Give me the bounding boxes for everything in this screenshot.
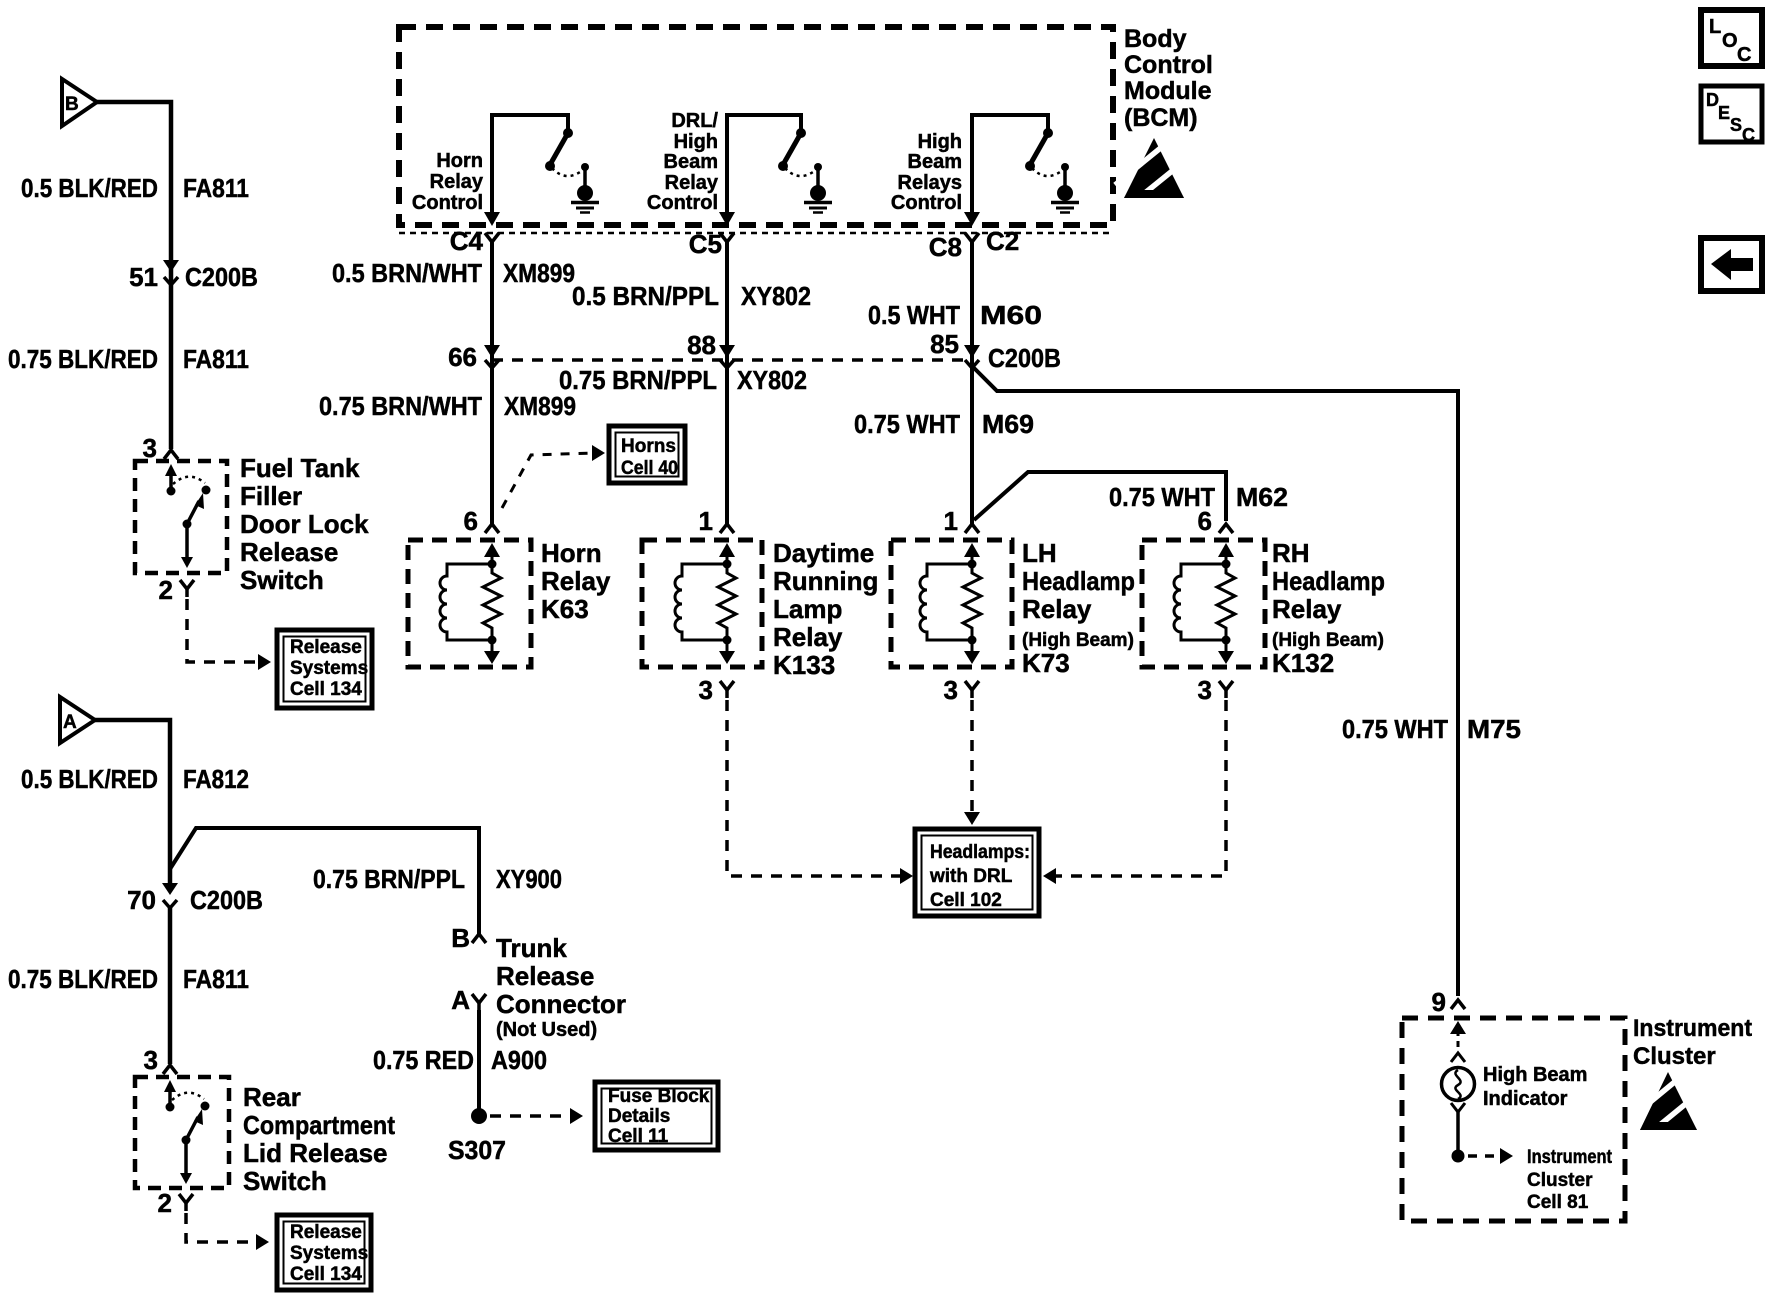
- svg-text:B: B: [65, 94, 79, 115]
- svg-text:Switch: Switch: [240, 565, 324, 595]
- relay coil of K132: [1174, 543, 1235, 664]
- svg-text:Fuse Block: Fuse Block: [608, 1086, 710, 1107]
- svg-text:(BCM): (BCM): [1124, 104, 1198, 132]
- fuel tank switch name label: [240, 453, 369, 595]
- svg-text:A: A: [451, 985, 470, 1015]
- svg-text:Running: Running: [773, 566, 878, 596]
- daytime running lamp relay K133 dashed box: [642, 540, 762, 667]
- headlamps with DRL cell 102 reference box: [915, 829, 1039, 916]
- svg-text:High: High: [674, 131, 718, 153]
- svg-text:70: 70: [127, 885, 156, 915]
- svg-text:C8: C8: [929, 232, 962, 262]
- svg-text:XM899: XM899: [504, 391, 576, 421]
- dashed wire to release systems cell 134: [187, 599, 271, 670]
- BCM pin C4: [450, 226, 499, 256]
- pin 3 of K132: [1198, 675, 1233, 705]
- svg-text:66: 66: [448, 342, 477, 372]
- release systems cell 134 reference box (lower): [277, 1215, 371, 1290]
- svg-text:0.5 BLK/RED: 0.5 BLK/RED: [21, 173, 158, 203]
- horn relay driver in BCM: [484, 115, 599, 226]
- wire label 0.5 BLK/RED FA811: [21, 173, 249, 203]
- body control module BCM dashed box: [399, 27, 1113, 225]
- svg-text:DRL/: DRL/: [671, 110, 718, 132]
- svg-text:0.75 BRN/PPL: 0.75 BRN/PPL: [559, 365, 717, 395]
- svg-text:2: 2: [158, 1188, 172, 1218]
- svg-text:Systems: Systems: [290, 1243, 368, 1264]
- LOC button box: [1701, 10, 1762, 66]
- splice S307: [448, 1108, 506, 1165]
- BCM connector face dotted line: [399, 232, 1113, 235]
- svg-text:LH: LH: [1022, 538, 1057, 568]
- svg-text:85: 85: [930, 329, 959, 359]
- svg-text:K133: K133: [773, 650, 835, 680]
- svg-text:S307: S307: [448, 1135, 506, 1165]
- fuse block details cell 11 reference box: [595, 1082, 718, 1150]
- svg-text:C4: C4: [450, 226, 484, 256]
- svg-text:FA811: FA811: [183, 344, 249, 374]
- pin A of trunk release connector: [451, 985, 486, 1015]
- ESD sensitivity symbol (BCM): [1115, 138, 1187, 201]
- C200B pin 88: [687, 330, 735, 368]
- svg-text:C5: C5: [689, 229, 722, 259]
- svg-text:Horn: Horn: [541, 538, 602, 568]
- svg-text:FA811: FA811: [183, 173, 249, 203]
- svg-text:K63: K63: [541, 594, 589, 624]
- svg-text:Control: Control: [891, 192, 962, 214]
- svg-text:XY802: XY802: [737, 365, 807, 395]
- pin 6 of horn relay: [464, 506, 499, 536]
- svg-text:0.75 WHT: 0.75 WHT: [1342, 714, 1448, 744]
- svg-text:Daytime: Daytime: [773, 538, 874, 568]
- svg-text:Release: Release: [290, 637, 362, 658]
- svg-text:C200B: C200B: [988, 343, 1061, 373]
- svg-text:9: 9: [1432, 987, 1446, 1017]
- svg-text:0.5 BRN/PPL: 0.5 BRN/PPL: [572, 281, 719, 311]
- pin 2 of fuel tank switch: [159, 575, 194, 605]
- svg-text:0.75 BLK/RED: 0.75 BLK/RED: [8, 964, 158, 994]
- in-line connector C200B pin 51: [129, 260, 258, 292]
- svg-text:K73: K73: [1022, 648, 1070, 678]
- svg-text:Cell 102: Cell 102: [930, 890, 1002, 911]
- svg-text:XY900: XY900: [496, 864, 562, 894]
- svg-text:A: A: [63, 712, 77, 733]
- pin 3 of rear compartment switch: [144, 1045, 177, 1075]
- svg-text:C200B: C200B: [190, 885, 263, 915]
- svg-text:XY802: XY802: [741, 281, 811, 311]
- LH headlamp relay name label: [1022, 538, 1135, 678]
- C200B pin 66: [448, 342, 500, 372]
- fuel tank filler door lock release switch: [135, 461, 227, 573]
- wire label 0.5 BLK/RED FA812: [21, 764, 249, 794]
- instrument cluster cell 81 reference label: [1527, 1147, 1613, 1213]
- svg-text:0.75 BRN/WHT: 0.75 BRN/WHT: [319, 391, 482, 421]
- in-line connector C200B pin 70: [127, 883, 263, 915]
- BCM name label: [1124, 25, 1213, 132]
- svg-text:High: High: [918, 131, 962, 153]
- svg-text:M69: M69: [982, 409, 1034, 439]
- dashed wire to release systems cell 134 (lower): [186, 1213, 269, 1250]
- svg-text:with DRL: with DRL: [929, 866, 1013, 887]
- svg-text:Trunk: Trunk: [496, 933, 567, 963]
- svg-text:0.5 BLK/RED: 0.5 BLK/RED: [21, 764, 158, 794]
- wire label 0.75 BLK/RED FA811 (lower): [8, 964, 249, 994]
- svg-text:Cluster: Cluster: [1527, 1170, 1593, 1191]
- svg-text:Cell 81: Cell 81: [1527, 1192, 1589, 1213]
- svg-text:Horns: Horns: [621, 436, 676, 457]
- connector C200B dashed pass-through line: [492, 358, 972, 362]
- instrument cluster name label: [1633, 1015, 1752, 1070]
- horns cell 40 reference box: [609, 426, 685, 483]
- wire label 0.75 WHT M62: [1109, 482, 1288, 512]
- high beam indicator lamp: [1442, 1064, 1588, 1110]
- svg-text:E: E: [1718, 103, 1730, 123]
- svg-text:A900: A900: [491, 1045, 547, 1075]
- svg-text:S: S: [1730, 115, 1742, 135]
- svg-text:Rear: Rear: [243, 1082, 301, 1112]
- svg-text:0.75 BRN/PPL: 0.75 BRN/PPL: [313, 864, 465, 894]
- svg-text:Relay: Relay: [1272, 594, 1342, 624]
- horn relay control label: [412, 150, 484, 214]
- wire M75 branch to instrument cluster: [972, 366, 1458, 996]
- svg-text:1: 1: [944, 506, 958, 536]
- svg-text:K132: K132: [1272, 648, 1334, 678]
- svg-text:Cell 134: Cell 134: [290, 1264, 362, 1285]
- dashed wire to fuse block details: [490, 1108, 583, 1124]
- svg-text:2: 2: [159, 575, 173, 605]
- wire 0.75 RED A900: [477, 1010, 481, 1116]
- pin 3 of K133: [699, 675, 734, 705]
- trunk release connector label: [496, 933, 626, 1041]
- wire B: 0.5 BLK/RED FA811: [96, 102, 171, 449]
- pin 3 of K73: [944, 675, 979, 705]
- dashed wire from K73 pin 3 to headlamps box: [964, 700, 980, 825]
- svg-text:0.75 BLK/RED: 0.75 BLK/RED: [8, 344, 158, 374]
- svg-text:Release: Release: [496, 961, 594, 991]
- svg-text:Module: Module: [1124, 77, 1212, 105]
- pin B of trunk release connector: [451, 923, 486, 953]
- RH headlamp relay name label: [1272, 538, 1385, 678]
- svg-text:C: C: [1737, 44, 1751, 66]
- svg-text:Headlamps:: Headlamps:: [930, 842, 1030, 863]
- connector triangle B: [62, 79, 97, 126]
- svg-text:B: B: [451, 923, 470, 953]
- DRL / high beam relay control label: [647, 110, 719, 214]
- svg-text:RH: RH: [1272, 538, 1310, 568]
- relay coil of K63: [440, 543, 501, 664]
- DESC button box: [1701, 86, 1762, 145]
- wire label 0.75 WHT M75: [1342, 714, 1521, 744]
- pin 6 of RH headlamp relay: [1198, 506, 1233, 536]
- wire from indicator to cluster splice: [1451, 1103, 1465, 1163]
- rear compartment switch name label: [243, 1082, 395, 1196]
- svg-text:Headlamp: Headlamp: [1022, 566, 1135, 596]
- wire label 0.5 BRN/WHT XM899: [332, 258, 575, 288]
- BCM pin C8 / connector C2: [929, 226, 1020, 262]
- svg-text:Beam: Beam: [664, 151, 718, 173]
- wire label 0.75 BRN/PPL XY900: [313, 864, 562, 894]
- svg-text:Instrument: Instrument: [1527, 1147, 1613, 1168]
- C200B pin 85: [930, 329, 1061, 373]
- pin 2 of rear compartment switch: [158, 1188, 193, 1218]
- svg-text:Beam: Beam: [908, 151, 962, 173]
- svg-text:L: L: [1709, 16, 1721, 38]
- svg-text:C200B: C200B: [185, 262, 258, 292]
- svg-text:Indicator: Indicator: [1483, 1088, 1568, 1110]
- dashed wire from K132 pin 3 to headlamps box: [1043, 700, 1226, 884]
- daytime running lamp relay name label: [773, 538, 878, 680]
- svg-text:O: O: [1722, 30, 1738, 52]
- svg-text:Fuel Tank: Fuel Tank: [240, 453, 360, 483]
- svg-text:0.5 WHT: 0.5 WHT: [868, 300, 960, 330]
- svg-text:Cell 40: Cell 40: [621, 458, 678, 479]
- wire XY802 (DRL relay control): [725, 242, 729, 524]
- svg-text:Control: Control: [412, 192, 483, 214]
- wire A: 0.5 BLK/RED FA812: [94, 720, 170, 888]
- svg-text:Headlamp: Headlamp: [1272, 566, 1385, 596]
- ESD sensitivity symbol (instrument cluster): [1631, 1072, 1699, 1133]
- wire label 0.5 WHT M60: [868, 300, 1042, 330]
- svg-text:3: 3: [143, 433, 157, 463]
- svg-text:0.75 RED: 0.75 RED: [373, 1045, 474, 1075]
- horn relay name label: [541, 538, 611, 624]
- svg-text:(Not Used): (Not Used): [496, 1019, 597, 1041]
- svg-text:Connector: Connector: [496, 989, 626, 1019]
- dashed wire from K133 pin 3 to headlamps box: [727, 700, 913, 884]
- svg-text:Body: Body: [1124, 25, 1187, 53]
- svg-text:Horn: Horn: [436, 150, 483, 172]
- svg-text:Relay: Relay: [1022, 594, 1092, 624]
- wire label 0.75 BLK/RED FA811: [8, 344, 249, 374]
- svg-text:M75: M75: [1467, 714, 1521, 744]
- horn relay K63 dashed box: [408, 540, 531, 667]
- svg-text:3: 3: [699, 675, 713, 705]
- svg-text:51: 51: [129, 262, 158, 292]
- svg-text:Release: Release: [240, 537, 338, 567]
- svg-text:Lid Release: Lid Release: [243, 1138, 388, 1168]
- svg-text:Cell 11: Cell 11: [608, 1126, 669, 1147]
- pin 1 of daytime running lamp relay: [699, 506, 734, 536]
- svg-text:High Beam: High Beam: [1483, 1064, 1587, 1086]
- svg-text:Details: Details: [608, 1106, 670, 1127]
- wire into high beam indicator: [1450, 1021, 1466, 1062]
- svg-text:Door Lock: Door Lock: [240, 509, 369, 539]
- dashed arrow to instrument cluster cell 81: [1468, 1148, 1513, 1164]
- BCM pin C5: [689, 229, 734, 259]
- relay coil of K133: [675, 543, 736, 664]
- svg-text:3: 3: [944, 675, 958, 705]
- relay coil of K73: [920, 543, 981, 664]
- svg-text:6: 6: [1198, 506, 1212, 536]
- wire label 0.75 WHT M69: [854, 409, 1034, 439]
- svg-text:Lamp: Lamp: [773, 594, 842, 624]
- svg-text:1: 1: [699, 506, 713, 536]
- connector triangle A: [60, 697, 95, 743]
- wire label 0.5 BRN/PPL XY802: [572, 281, 811, 311]
- pin 3 of fuel tank switch: [143, 433, 178, 463]
- svg-text:Cluster: Cluster: [1633, 1043, 1716, 1070]
- svg-text:6: 6: [464, 506, 478, 536]
- svg-text:Compartment: Compartment: [243, 1110, 395, 1140]
- pin 1 of LH headlamp relay: [944, 506, 979, 536]
- high beam relays driver in BCM: [964, 115, 1079, 226]
- svg-text:Switch: Switch: [243, 1166, 327, 1196]
- DRL high beam relay driver in BCM: [719, 115, 832, 226]
- svg-text:Cell 134: Cell 134: [290, 679, 362, 700]
- high beam relays control label: [891, 131, 962, 214]
- svg-text:Filler: Filler: [240, 481, 302, 511]
- dashed arrow from horn wire to horns cell 40: [502, 445, 605, 508]
- wire label 0.75 BRN/WHT XM899 (lower): [319, 391, 576, 421]
- svg-text:3: 3: [144, 1045, 158, 1075]
- svg-text:XM899: XM899: [503, 258, 575, 288]
- back-arrow button box: [1701, 238, 1762, 291]
- svg-text:M60: M60: [980, 300, 1042, 330]
- svg-text:Relay: Relay: [541, 566, 611, 596]
- svg-text:Instrument: Instrument: [1633, 1015, 1752, 1042]
- rear compartment lid release switch: [135, 1077, 229, 1188]
- svg-text:C2: C2: [986, 226, 1019, 256]
- svg-text:Control: Control: [647, 192, 718, 214]
- svg-text:Relay: Relay: [430, 171, 484, 193]
- svg-text:88: 88: [687, 330, 716, 360]
- wire XM899 (horn relay control): [490, 242, 494, 524]
- svg-text:FA812: FA812: [183, 764, 249, 794]
- svg-text:Relay: Relay: [665, 172, 719, 194]
- svg-text:Release: Release: [290, 1222, 362, 1243]
- svg-text:0.5 BRN/WHT: 0.5 BRN/WHT: [332, 258, 482, 288]
- svg-text:0.75 WHT: 0.75 WHT: [854, 409, 960, 439]
- wire M60 / M69 (high beam relays control): [970, 242, 974, 524]
- svg-text:FA811: FA811: [183, 964, 249, 994]
- svg-text:3: 3: [1198, 675, 1212, 705]
- wire M62 branch to RH headlamp relay: [974, 472, 1226, 521]
- LH headlamp relay K73 dashed box: [891, 540, 1012, 667]
- svg-text:Systems: Systems: [290, 658, 368, 679]
- wire label 0.75 BRN/PPL XY802 (lower): [559, 365, 807, 395]
- RH headlamp relay K132 dashed box: [1142, 540, 1265, 667]
- svg-text:Control: Control: [1124, 51, 1213, 79]
- pin 9 of instrument cluster: [1432, 987, 1465, 1017]
- instrument cluster dashed box: [1402, 1018, 1625, 1221]
- release systems cell 134 reference box (upper): [277, 630, 372, 708]
- branch wire to trunk release connector: [170, 828, 479, 934]
- svg-text:M62: M62: [1236, 482, 1288, 512]
- wire label 0.75 RED A900: [373, 1045, 547, 1075]
- svg-text:Relay: Relay: [773, 622, 843, 652]
- svg-text:Relays: Relays: [898, 172, 963, 194]
- svg-text:C: C: [1742, 125, 1755, 145]
